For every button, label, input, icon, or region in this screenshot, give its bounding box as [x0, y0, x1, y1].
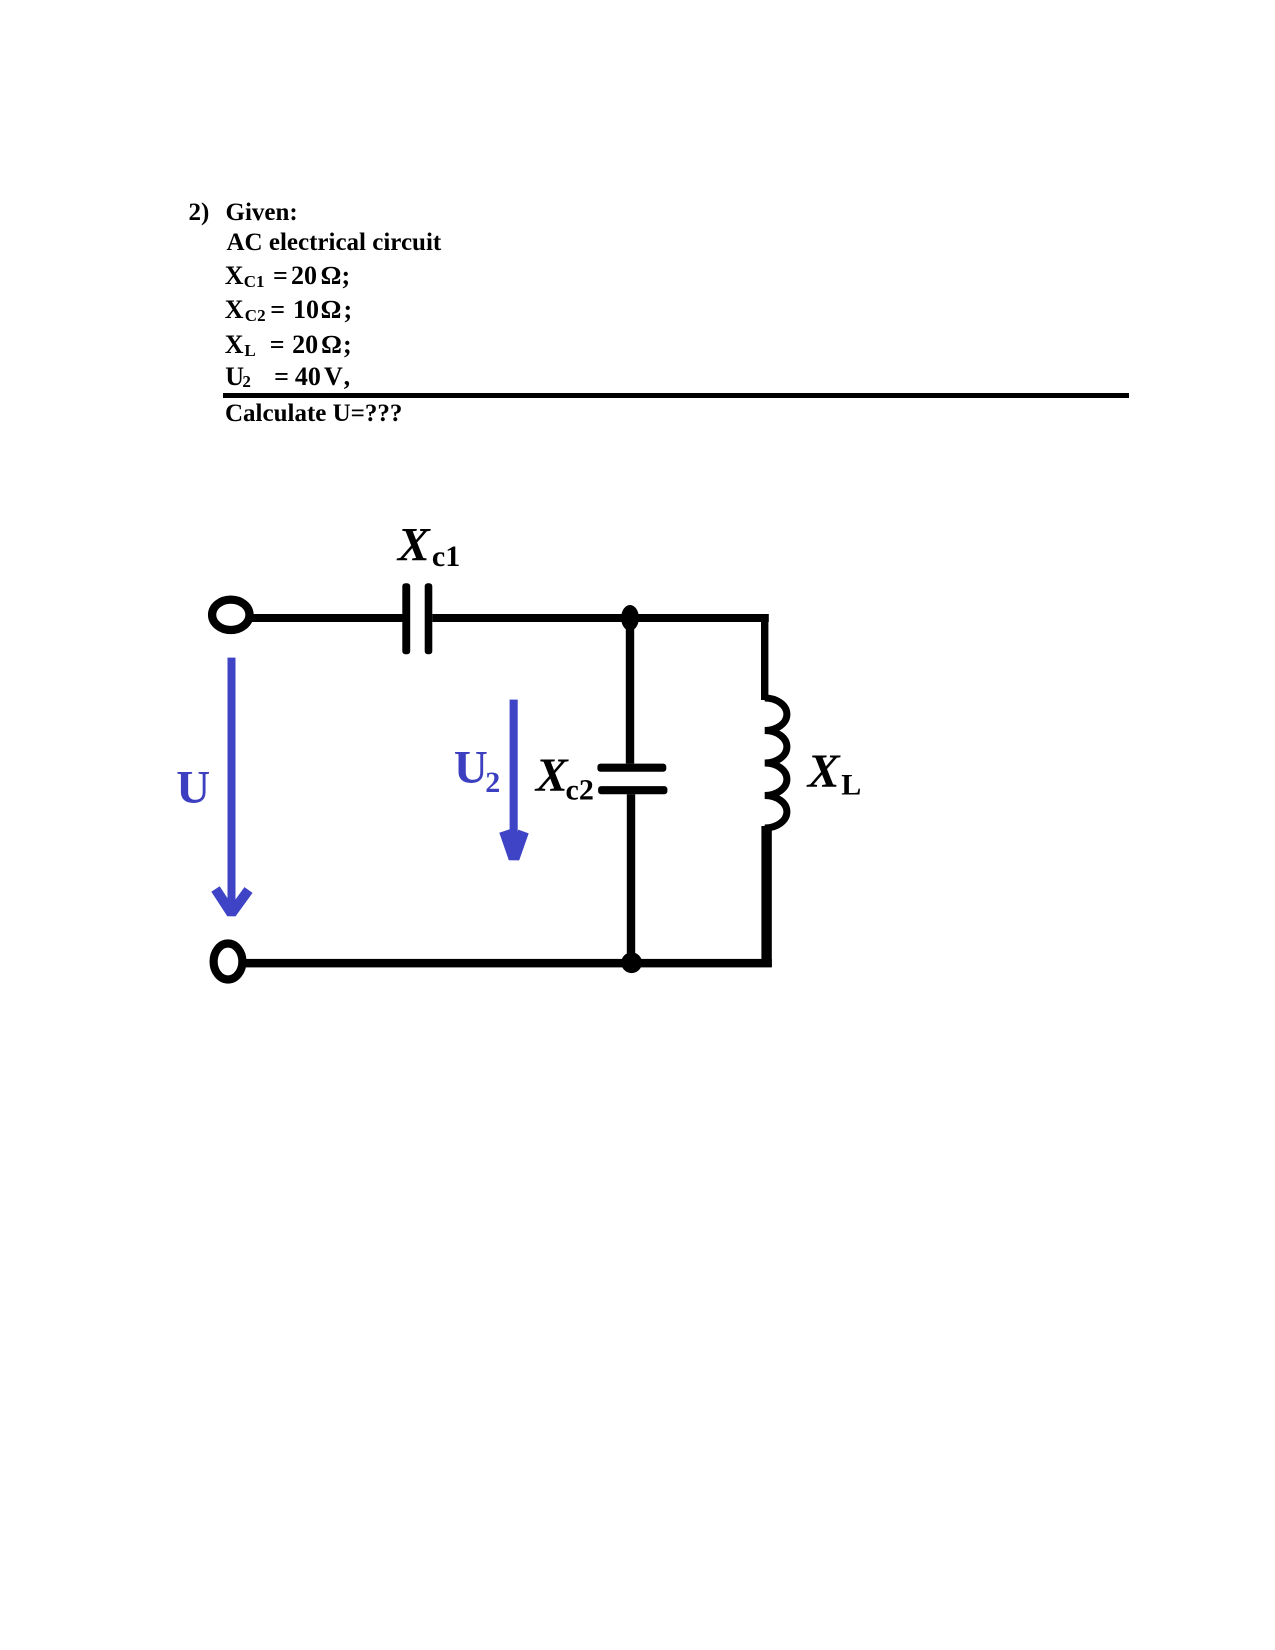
terminal T1 (top-left input)	[212, 600, 249, 630]
problem statement list number	[189, 200, 210, 225]
svg-text:X: X	[534, 749, 569, 802]
svg-text:c2: c2	[566, 773, 594, 806]
capacitor C2 (Xc2)	[597, 764, 667, 795]
value label Xc1 = 20 ohm	[225, 263, 244, 289]
inductor L1 (XL)	[765, 698, 787, 828]
value label U2 = 40 V	[225, 364, 244, 390]
label Xc1	[396, 518, 461, 573]
wire right branch upper	[761, 614, 768, 700]
voltage arrow U	[216, 658, 249, 914]
voltage arrow U2	[505, 700, 524, 859]
svg-text:U: U	[176, 762, 210, 814]
problem statement text line 2	[227, 230, 442, 255]
value label Xc2 = 10 ohm	[225, 297, 244, 323]
label U	[176, 762, 210, 814]
wire top-middle segment	[432, 614, 769, 622]
wire right branch lower	[761, 826, 771, 967]
question text	[225, 401, 402, 426]
label XL	[806, 745, 862, 802]
svg-text:X: X	[396, 518, 431, 571]
svg-text:2: 2	[485, 766, 500, 799]
svg-text:L: L	[841, 769, 861, 802]
label U2	[454, 742, 500, 800]
terminal T2 (bottom-left)	[214, 944, 243, 980]
wire Xc2 branch lower	[627, 794, 635, 963]
svg-text:c1: c1	[432, 540, 460, 573]
problem statement text line 1	[226, 200, 298, 225]
capacitor C1 (Xc1)	[402, 583, 432, 654]
node A (junction Xc1/Xc2/XL)	[621, 605, 639, 631]
node B (bottom junction)	[621, 952, 642, 973]
value label XL = 20 ohm	[225, 332, 244, 358]
wire bottom segment	[244, 959, 772, 968]
horizontal rule	[223, 393, 1129, 398]
wire Xc2 branch upper	[626, 618, 634, 764]
label Xc2	[534, 749, 594, 806]
wire top-left segment	[249, 614, 403, 622]
svg-text:X: X	[806, 745, 841, 798]
svg-text:U: U	[454, 742, 488, 794]
